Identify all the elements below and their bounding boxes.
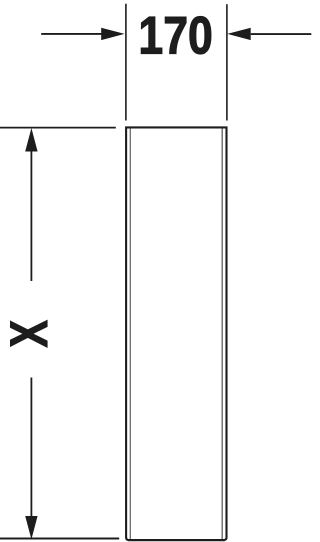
dimension line lower segment of height dimension <box>30 378 32 518</box>
arrowhead pointing left at right extension line <box>227 28 250 40</box>
extension line right of width dimension 170 <box>226 4 228 120</box>
arrowhead pointing down at bottom extension line <box>25 516 37 539</box>
arrowhead pointing right at left extension line <box>101 28 124 40</box>
svg-text:X: X <box>0 320 59 348</box>
extension line bottom of height dimension X <box>0 538 119 540</box>
panel inner edge line left <box>129 129 131 540</box>
svg-text:170: 170 <box>138 7 212 65</box>
panel bottom edge emphasis <box>128 539 225 541</box>
panel inner edge line right <box>221 129 223 540</box>
dimension line left segment of width dimension <box>41 33 103 35</box>
extension line left of width dimension 170 <box>125 4 127 121</box>
arrowhead pointing up at top extension line <box>25 128 37 152</box>
panel outline rectangle <box>126 127 226 540</box>
dimension line right segment of width dimension <box>251 33 312 35</box>
dimension line upper segment of height dimension <box>30 150 32 281</box>
extension line top of height dimension X <box>0 127 116 129</box>
